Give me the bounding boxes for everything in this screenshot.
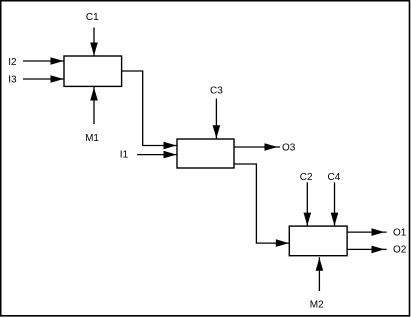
svg-text:I3: I3: [8, 75, 17, 86]
svg-text:C2: C2: [300, 172, 313, 183]
svg-text:C4: C4: [328, 172, 341, 183]
svg-text:O3: O3: [282, 143, 296, 154]
svg-text:C3: C3: [210, 86, 223, 97]
svg-text:O2: O2: [393, 244, 407, 255]
svg-text:M2: M2: [310, 300, 324, 311]
svg-text:I2: I2: [8, 57, 17, 68]
svg-text:M1: M1: [85, 133, 99, 144]
svg-text:O1: O1: [393, 228, 407, 239]
svg-text:I1: I1: [120, 150, 129, 161]
svg-text:C1: C1: [86, 12, 99, 23]
